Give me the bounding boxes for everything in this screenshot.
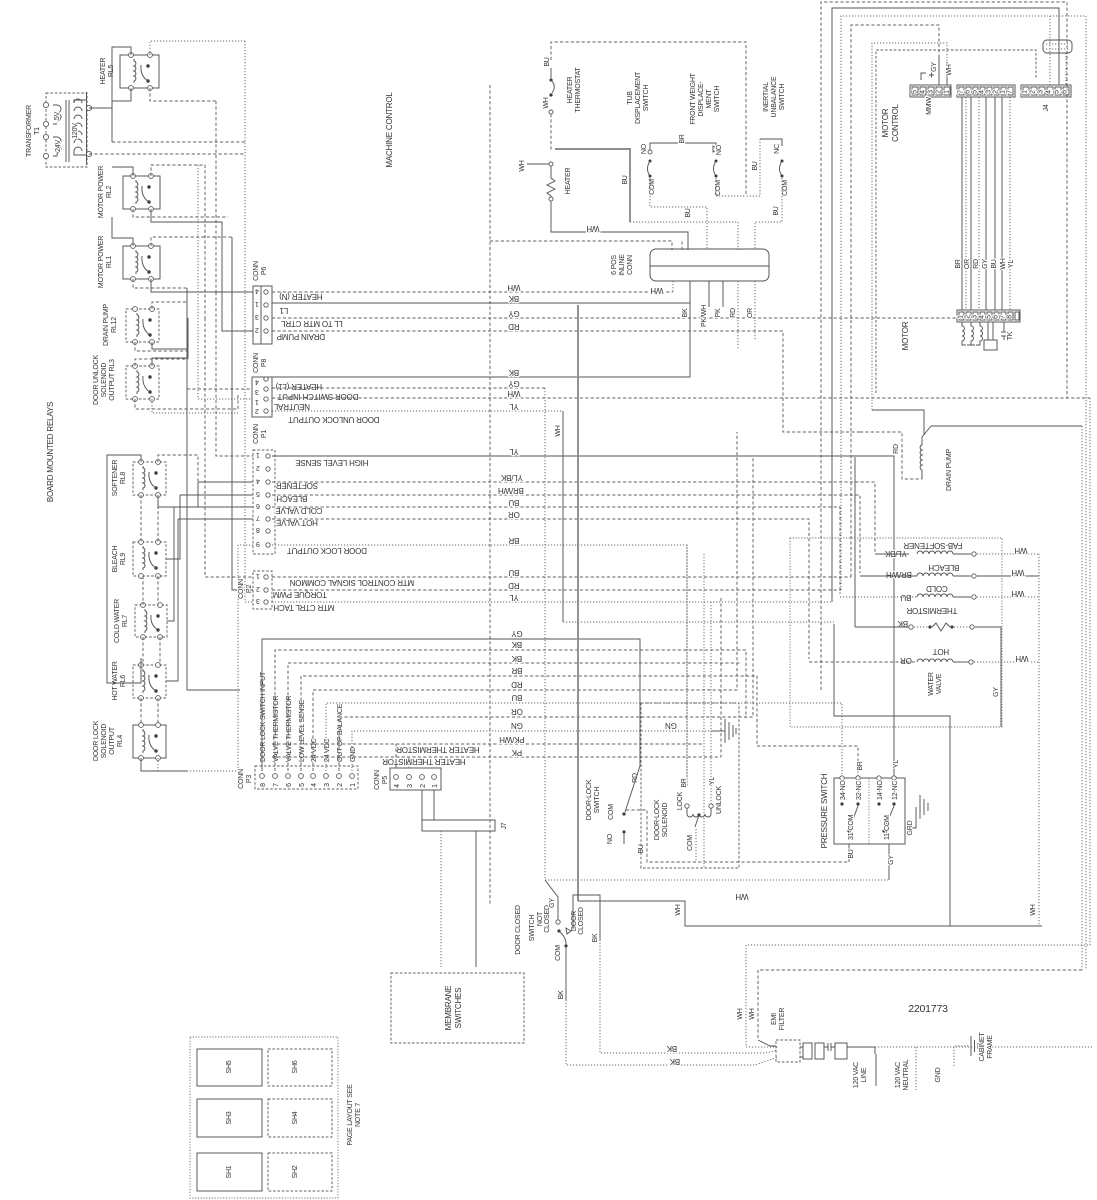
wire transformer 120V bottom bbox=[89, 153, 245, 155]
svg-text:BR: BR bbox=[955, 259, 962, 268]
svg-text:14-NO: 14-NO bbox=[877, 780, 884, 800]
wire water valve WH bus bbox=[1038, 554, 1040, 926]
relay RL9 BLEACH bbox=[133, 540, 166, 579]
wire RL6 contact to P1 hot row bbox=[178, 518, 253, 520]
membrane switches box bbox=[391, 973, 524, 1043]
svg-text:6 POS: 6 POS bbox=[611, 255, 618, 275]
svg-text:7: 7 bbox=[1007, 90, 1014, 94]
wire WH row to door area bbox=[578, 901, 1042, 926]
svg-text:HEATER THERMISTOR: HEATER THERMISTOR bbox=[396, 745, 480, 754]
svg-text:32-NC: 32-NC bbox=[856, 781, 863, 800]
wire WH heater(N) row bbox=[272, 291, 673, 293]
svg-text:RD: RD bbox=[511, 680, 523, 689]
svg-text:CONN: CONN bbox=[253, 424, 260, 444]
svg-text:MTR CTRL TACH: MTR CTRL TACH bbox=[273, 603, 334, 612]
svg-text:GND: GND bbox=[935, 1067, 942, 1082]
wire bus x216 bbox=[215, 101, 217, 292]
svg-text:L1: L1 bbox=[279, 306, 288, 315]
svg-text:WH: WH bbox=[1011, 589, 1024, 598]
wire J7 to membrane dotted bbox=[440, 831, 442, 967]
svg-text:OR: OR bbox=[511, 707, 523, 716]
wire PK/WH heater thermistor row bbox=[272, 743, 704, 745]
wire transformer 120V top to junction bbox=[89, 108, 112, 142]
svg-text:OUTPUT RL3: OUTPUT RL3 bbox=[109, 359, 116, 401]
svg-text:COM: COM bbox=[687, 835, 694, 851]
door closed switch bbox=[515, 880, 585, 961]
connector P8 bbox=[252, 377, 272, 417]
wire MMW feed GY bbox=[938, 55, 940, 85]
svg-text:MEMBRANE: MEMBRANE bbox=[444, 986, 453, 1031]
wire RL1 coil top bbox=[112, 217, 133, 246]
inertial unbalance switch bbox=[746, 139, 789, 250]
wire pressure GRD bbox=[905, 807, 916, 828]
connector motor-control mid bbox=[957, 85, 1015, 97]
relay RL1 MOTOR POWER bbox=[123, 244, 160, 282]
wire bus n4 dashed bbox=[851, 25, 939, 577]
wire YL high level row bbox=[272, 456, 894, 778]
svg-text:DISPLACE-: DISPLACE- bbox=[698, 81, 705, 117]
svg-text:3: 3 bbox=[256, 597, 260, 604]
svg-text:RD: RD bbox=[973, 259, 980, 269]
wire WH neutral row bbox=[272, 397, 1090, 399]
svg-text:YL: YL bbox=[509, 447, 519, 456]
wire RL8 contact top bbox=[158, 455, 198, 482]
svg-text:2: 2 bbox=[993, 90, 1000, 94]
svg-text:WH: WH bbox=[519, 160, 526, 171]
wire RD 24vdc row bbox=[313, 432, 737, 771]
svg-text:MMW: MMW bbox=[926, 97, 933, 115]
svg-text:MOTOR: MOTOR bbox=[881, 108, 890, 137]
svg-text:SOLENOID: SOLENOID bbox=[101, 363, 108, 398]
svg-text:4: 4 bbox=[920, 90, 927, 94]
polarity mark MMW bbox=[921, 73, 934, 81]
svg-text:RL8: RL8 bbox=[120, 472, 127, 485]
svg-text:DOOR SWITCH INPUT: DOOR SWITCH INPUT bbox=[277, 392, 358, 401]
SECTION E: motor control bbox=[821, 2, 1086, 970]
svg-text:MENT: MENT bbox=[706, 89, 713, 109]
valve COLD bbox=[840, 584, 1039, 602]
svg-text:INERTIAL: INERTIAL bbox=[763, 82, 770, 112]
svg-text:J4: J4 bbox=[1043, 104, 1050, 111]
svg-text:CONN: CONN bbox=[627, 255, 634, 275]
svg-text:SWITCH: SWITCH bbox=[594, 787, 601, 814]
connector P3 bbox=[255, 766, 358, 789]
motor thermal protector bbox=[1001, 322, 1014, 340]
wire RL1 bottom contact bbox=[151, 279, 253, 292]
svg-text:SOLENOID: SOLENOID bbox=[662, 803, 669, 838]
wire RL3 coil bottom bbox=[135, 399, 238, 409]
svg-text:6: 6 bbox=[993, 315, 1000, 319]
svg-text:PK: PK bbox=[715, 308, 722, 317]
SECTION D: top middle bbox=[490, 42, 789, 350]
svg-text:PAGE LAYOUT SEE: PAGE LAYOUT SEE bbox=[347, 1084, 354, 1146]
svg-text:YL: YL bbox=[709, 777, 716, 785]
svg-text:12-NC: 12-NC bbox=[892, 781, 899, 800]
inline connector top right bbox=[1043, 40, 1072, 53]
wire WH row 970 to EMI bbox=[758, 970, 1082, 1040]
svg-text:RL7: RL7 bbox=[122, 615, 129, 628]
wire motor bundle 7 bbox=[1001, 97, 1003, 310]
svg-text:CONTROL: CONTROL bbox=[891, 103, 900, 141]
connector P5 bbox=[390, 768, 441, 790]
relay RL4 DOOR LOCK SOLENOID OUTPUT bbox=[133, 723, 166, 761]
svg-text:WH: WH bbox=[1030, 904, 1037, 915]
svg-text:GRD: GRD bbox=[907, 820, 914, 835]
wire P5 pin2 to J7 bbox=[421, 790, 423, 820]
svg-text:BU: BU bbox=[638, 844, 645, 853]
wire bus feed P2 pin1 bbox=[205, 318, 253, 577]
svg-text:6: 6 bbox=[965, 90, 972, 94]
wire solenoid 624 path bbox=[834, 624, 950, 926]
wire BK valve thermistor row pin6 bbox=[288, 663, 741, 771]
door lock enclosure bbox=[641, 703, 739, 868]
wire bus feed P8 pin2 bbox=[187, 388, 252, 390]
wire RL8 contact to P1 softener row bbox=[198, 481, 253, 483]
epos pin wires bottom with labels bbox=[672, 281, 674, 292]
wire GN gnd row bbox=[352, 731, 712, 771]
svg-text:3: 3 bbox=[324, 783, 331, 787]
wire RL4 bottom out bbox=[158, 758, 238, 771]
wire RL8 contact out bbox=[158, 482, 198, 507]
svg-text:3: 3 bbox=[1038, 90, 1045, 94]
wire dashed row to EPOS pin top bbox=[490, 241, 672, 250]
wire pressure BU bottom bbox=[848, 844, 850, 862]
svg-text:WATER: WATER bbox=[928, 672, 935, 696]
svg-text:WH: WH bbox=[1015, 654, 1028, 663]
relay RL7 COLD WATER bbox=[135, 603, 167, 640]
wire bus GY down bbox=[545, 388, 889, 880]
svg-text:FILTER: FILTER bbox=[779, 1008, 786, 1031]
wire bus feed P1 pin1 bbox=[216, 292, 253, 456]
svg-text:34-NO: 34-NO bbox=[840, 780, 847, 800]
svg-text:INLINE: INLINE bbox=[619, 254, 626, 276]
svg-text:P3: P3 bbox=[246, 775, 253, 783]
svg-text:BK: BK bbox=[508, 294, 519, 303]
svg-text:CONN: CONN bbox=[374, 770, 381, 790]
svg-text:WH: WH bbox=[507, 283, 520, 292]
tub displacement switch bbox=[641, 143, 707, 250]
svg-text:WH: WH bbox=[1000, 258, 1007, 269]
svg-text:8: 8 bbox=[256, 526, 260, 533]
svg-text:2: 2 bbox=[256, 585, 260, 592]
svg-text:COM: COM bbox=[608, 804, 615, 820]
svg-text:FRAME: FRAME bbox=[987, 1035, 994, 1059]
svg-text:NOTE 7: NOTE 7 bbox=[355, 1103, 362, 1127]
wire transformer to bus dashed bbox=[112, 141, 245, 143]
wire RL5 bottom-left bbox=[112, 88, 131, 108]
wire BK valve thermistor row pin7 bbox=[275, 650, 746, 771]
motor winding 3 bbox=[976, 322, 983, 345]
svg-text:WH: WH bbox=[675, 904, 682, 915]
wire RL6 bottom to RL4 bbox=[141, 698, 158, 725]
svg-text:GY: GY bbox=[549, 898, 556, 908]
SECTION G: bottom bbox=[190, 398, 1092, 1198]
svg-text:GY: GY bbox=[508, 309, 520, 318]
svg-text:HEATER (N): HEATER (N) bbox=[279, 292, 323, 301]
svg-text:BR: BR bbox=[508, 536, 519, 545]
wire motor bundle 3 bbox=[970, 97, 972, 310]
svg-text:2: 2 bbox=[337, 783, 344, 787]
svg-text:HEATER: HEATER bbox=[565, 168, 572, 195]
wire bus feed P2 pin2 bbox=[232, 237, 253, 590]
svg-text:YL: YL bbox=[893, 760, 900, 768]
wire door closed BK left bbox=[565, 948, 567, 1000]
svg-text:LOW LEVEL SENSE: LOW LEVEL SENSE bbox=[299, 699, 306, 762]
wire door closed BK right bbox=[573, 895, 600, 940]
bracket 120VAC LINE bbox=[875, 1047, 876, 1086]
svg-text:GY: GY bbox=[993, 687, 1000, 697]
svg-text:120 VAC: 120 VAC bbox=[853, 1062, 860, 1088]
svg-text:MOTOR POWER: MOTOR POWER bbox=[98, 236, 105, 288]
svg-text:GY: GY bbox=[982, 259, 989, 269]
wire RL8 loop solid bbox=[107, 455, 141, 683]
SECTION B: connectors bbox=[174, 85, 508, 967]
svg-text:4: 4 bbox=[255, 378, 259, 385]
wire BR door lock row bbox=[272, 545, 687, 787]
svg-text:DOOR-LOCK: DOOR-LOCK bbox=[586, 779, 593, 820]
svg-text:BLEACH: BLEACH bbox=[928, 563, 959, 572]
wire RL3 coil top bbox=[135, 359, 188, 366]
svg-text:DRAIN PUMP: DRAIN PUMP bbox=[946, 448, 953, 490]
svg-text:CONN: CONN bbox=[238, 579, 245, 599]
svg-text:7: 7 bbox=[256, 514, 260, 521]
svg-text:3: 3 bbox=[986, 90, 993, 94]
svg-text:DOOR-LOCK: DOOR-LOCK bbox=[654, 799, 661, 840]
wire RL5 top-left stub bbox=[112, 47, 131, 108]
motor control dashed enclosure bbox=[876, 50, 1036, 393]
svg-text:RL1: RL1 bbox=[106, 256, 113, 269]
svg-text:DOOR LOCK: DOOR LOCK bbox=[93, 720, 100, 761]
wire RL5 top to bus bbox=[150, 41, 245, 55]
svg-text:24 VDC: 24 VDC bbox=[324, 739, 331, 762]
svg-text:1: 1 bbox=[256, 451, 260, 458]
wire bus WH down bbox=[562, 411, 564, 622]
svg-text:3: 3 bbox=[255, 313, 259, 320]
svg-text:2: 2 bbox=[1030, 90, 1037, 94]
svg-text:BU: BU bbox=[544, 57, 551, 66]
wire GND dotted bbox=[954, 1046, 969, 1066]
svg-text:YL: YL bbox=[509, 402, 519, 411]
svg-text:5: 5 bbox=[1054, 90, 1061, 94]
svg-text:4: 4 bbox=[311, 783, 318, 787]
svg-text:RD: RD bbox=[893, 444, 900, 454]
wire PK/WH bus bbox=[703, 554, 705, 867]
svg-text:24 VDC: 24 VDC bbox=[311, 739, 318, 762]
wire bus n1 dashed bbox=[821, 2, 1067, 690]
valve BLEACH bbox=[860, 563, 1039, 579]
connector P1 bbox=[253, 450, 275, 554]
wire RL3 top feed bbox=[152, 332, 188, 366]
wire J7 to membrane solid bbox=[475, 831, 477, 967]
svg-text:CONN: CONN bbox=[253, 353, 260, 373]
svg-text:THERMISTOR: THERMISTOR bbox=[906, 606, 957, 615]
svg-text:5: 5 bbox=[986, 315, 993, 319]
wire WH row 945 to EMI bbox=[746, 398, 1090, 1047]
svg-text:BK: BK bbox=[682, 308, 689, 317]
svg-text:WH: WH bbox=[1014, 546, 1027, 555]
wire thick gray BU path bbox=[577, 305, 579, 901]
wire motor bundle 8 jog bbox=[1009, 97, 1011, 310]
svg-text:NEUTRAL: NEUTRAL bbox=[903, 1059, 910, 1091]
relay RL6 HOT WATER bbox=[133, 519, 178, 700]
svg-text:1: 1 bbox=[256, 572, 260, 579]
thermistor water valve bbox=[855, 606, 1001, 727]
wire YL door unlock row bbox=[272, 410, 563, 412]
svg-text:RD: RD bbox=[730, 308, 737, 318]
wire thick BU heater loop bbox=[555, 149, 630, 222]
relay RL8 SOFTENER bbox=[133, 460, 166, 498]
svg-text:RL6: RL6 bbox=[120, 675, 127, 688]
wire RL4 coil bottom out bbox=[141, 758, 187, 771]
svg-text:HEATER: HEATER bbox=[567, 77, 574, 104]
svg-text:RL5: RL5 bbox=[108, 65, 115, 78]
svg-text:BR/WH: BR/WH bbox=[498, 486, 524, 495]
svg-text:SH6: SH6 bbox=[292, 1060, 299, 1073]
svg-text:120V: 120V bbox=[72, 123, 79, 139]
machine control dashed border bbox=[489, 85, 491, 905]
svg-text:2: 2 bbox=[255, 326, 259, 333]
wire top dashed loop bbox=[551, 42, 746, 196]
wire RL2 top feed bbox=[151, 165, 205, 318]
wire RL3 bottom contact bbox=[152, 399, 238, 413]
EMI filter bbox=[776, 1040, 875, 1062]
svg-text:BU: BU bbox=[508, 568, 519, 577]
svg-text:2: 2 bbox=[936, 90, 943, 94]
wire BR solenoid bus bbox=[686, 545, 688, 787]
svg-text:4: 4 bbox=[256, 477, 260, 484]
svg-text:DRAIN PUMP: DRAIN PUMP bbox=[103, 303, 110, 345]
wire RD drain pump row bbox=[272, 331, 860, 432]
door lock solenoid bbox=[654, 777, 723, 861]
wire bus feed P2 pin3 bbox=[245, 305, 253, 602]
wire PK heater thermistor row bbox=[272, 756, 721, 758]
svg-text:TORQUE PWM: TORQUE PWM bbox=[273, 590, 327, 599]
svg-text:SWITCH: SWITCH bbox=[529, 915, 536, 942]
wire RL7 contact out bbox=[167, 507, 174, 621]
svg-text:1: 1 bbox=[350, 783, 357, 787]
wire RL4 contact to P1 door lock row bbox=[238, 545, 253, 771]
svg-text:SH3: SH3 bbox=[226, 1111, 233, 1124]
svg-text:NO: NO bbox=[716, 144, 723, 155]
svg-text:BR: BR bbox=[681, 778, 688, 787]
wire thermistor BK bus bbox=[854, 457, 856, 627]
epos inline connector bbox=[650, 249, 769, 281]
svg-text:DOOR LOCK SWITCH INPUT: DOOR LOCK SWITCH INPUT bbox=[260, 671, 267, 762]
wire GY door lock switch row bbox=[262, 639, 640, 771]
svg-text:2: 2 bbox=[420, 784, 427, 788]
wire RL12 bottom bbox=[152, 318, 188, 349]
svg-text:OR: OR bbox=[900, 656, 912, 665]
svg-text:PK/WH: PK/WH bbox=[701, 305, 708, 327]
svg-text:HOT: HOT bbox=[933, 647, 950, 656]
page layout box bbox=[190, 1037, 338, 1198]
svg-text:P8: P8 bbox=[261, 359, 268, 367]
wire P5 pin3 stub bbox=[408, 757, 410, 768]
svg-text:WH: WH bbox=[735, 892, 748, 901]
svg-text:4: 4 bbox=[979, 315, 986, 319]
wire RL7 bottom to RL6 bbox=[143, 637, 160, 665]
svg-text:OR: OR bbox=[747, 308, 754, 318]
wire MMW feed WH bbox=[946, 62, 948, 85]
svg-text:BU: BU bbox=[991, 259, 998, 268]
wire BU cold row bbox=[272, 507, 840, 594]
svg-text:MTR CONTROL SIGNAL COMMON: MTR CONTROL SIGNAL COMMON bbox=[289, 578, 414, 587]
svg-text:8: 8 bbox=[260, 783, 267, 787]
svg-text:CLOSED: CLOSED bbox=[578, 907, 585, 935]
wire P5 pin4 stub bbox=[395, 744, 397, 768]
svg-text:BK: BK bbox=[669, 1057, 680, 1066]
svg-text:WH: WH bbox=[737, 1008, 744, 1019]
connector motor plug bbox=[957, 310, 1020, 322]
svg-text:SOFTENER: SOFTENER bbox=[112, 460, 119, 497]
wire RL12 coil stubs bbox=[135, 342, 188, 351]
svg-text:THERMOSTAT: THERMOSTAT bbox=[575, 66, 582, 112]
svg-text:DOOR: DOOR bbox=[571, 911, 578, 931]
svg-text:BOARD MOUNTED RELAYS: BOARD MOUNTED RELAYS bbox=[46, 402, 55, 502]
svg-text:MOTOR POWER: MOTOR POWER bbox=[98, 166, 105, 218]
relay RL2 MOTOR POWER bbox=[123, 174, 160, 212]
SECTION A: board mounted relays bbox=[26, 41, 253, 771]
svg-text:HOT WATER: HOT WATER bbox=[112, 661, 119, 700]
svg-text:WH: WH bbox=[1011, 568, 1024, 577]
wire BR low level row bbox=[301, 676, 858, 781]
wire motor bundle 1 bbox=[961, 97, 963, 310]
svg-text:2: 2 bbox=[256, 464, 260, 471]
wire RL7 contact to P1 cold row bbox=[174, 506, 253, 508]
svg-text:RD: RD bbox=[632, 773, 639, 783]
svg-text:HIGH LEVEL SENSE: HIGH LEVEL SENSE bbox=[296, 458, 369, 467]
svg-text:SH5: SH5 bbox=[226, 1060, 233, 1073]
svg-text:BK: BK bbox=[558, 990, 565, 999]
wire RL5 bottom to bus bbox=[150, 88, 216, 101]
svg-text:NO: NO bbox=[607, 833, 614, 844]
svg-text:OR: OR bbox=[964, 259, 971, 269]
svg-text:CONN: CONN bbox=[238, 769, 245, 789]
connector P2 bbox=[253, 571, 272, 609]
svg-text:TK: TK bbox=[1007, 331, 1014, 340]
svg-text:31-COM: 31-COM bbox=[848, 814, 855, 840]
wire RL9 contact to P1 bleach row bbox=[180, 494, 253, 496]
svg-text:BK: BK bbox=[511, 654, 522, 663]
svg-text:UNLOCK: UNLOCK bbox=[716, 785, 723, 814]
svg-text:BR: BR bbox=[857, 761, 864, 770]
svg-text:NO: NO bbox=[641, 143, 648, 154]
svg-text:YL/BK: YL/BK bbox=[884, 549, 907, 558]
svg-text:P5: P5 bbox=[382, 776, 389, 784]
svg-text:7: 7 bbox=[1000, 315, 1007, 319]
svg-text:RD: RD bbox=[508, 581, 520, 590]
motor tach box bbox=[984, 322, 997, 350]
svg-text:CONN: CONN bbox=[253, 261, 260, 281]
wire motor bundle 6 bbox=[994, 97, 996, 310]
svg-text:YL: YL bbox=[1008, 260, 1015, 268]
svg-text:DOOR UNLOCK OUTPUT: DOOR UNLOCK OUTPUT bbox=[288, 415, 379, 424]
svg-text:FAB-SOFTENER: FAB-SOFTENER bbox=[903, 541, 962, 550]
svg-text:BU: BU bbox=[752, 161, 759, 170]
svg-text:1: 1 bbox=[944, 90, 951, 94]
svg-text:COLD WATER: COLD WATER bbox=[114, 599, 121, 643]
connector MMW bbox=[910, 85, 951, 97]
wire RL1 top feed bbox=[151, 237, 232, 331]
svg-text:120 VAC: 120 VAC bbox=[895, 1062, 902, 1088]
svg-text:SWITCH: SWITCH bbox=[643, 85, 650, 112]
svg-text:3: 3 bbox=[928, 90, 935, 94]
wire RL12 contact top bbox=[152, 302, 188, 309]
svg-text:WH: WH bbox=[946, 64, 953, 75]
svg-text:1: 1 bbox=[255, 300, 259, 307]
svg-text:5: 5 bbox=[256, 490, 260, 497]
wire bus x245 bbox=[244, 41, 246, 305]
